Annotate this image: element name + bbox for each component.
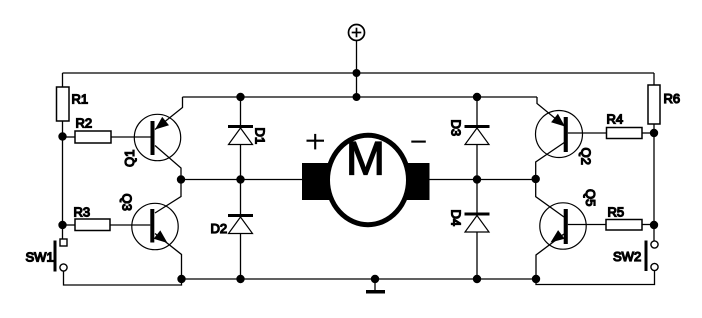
wire left vertical top — [62, 73, 64, 87]
wire R4 right lead — [642, 132, 654, 134]
transistor Q2 — [536, 97, 583, 179]
motor + polarity label — [307, 134, 325, 150]
node R4/R6 junction — [650, 129, 658, 137]
svg-text:R6: R6 — [664, 91, 681, 106]
wire top rail — [63, 72, 655, 74]
node bottom right junction — [532, 275, 540, 283]
wire motor right rail — [430, 179, 536, 181]
wire bottom rail — [182, 278, 537, 280]
wire right vertical middle — [653, 133, 655, 241]
svg-text:D3: D3 — [449, 120, 464, 137]
wire R6 bottom lead — [653, 124, 655, 133]
wire inner top rail — [183, 96, 538, 98]
svg-text:R4: R4 — [607, 112, 624, 127]
resistor R1 — [57, 87, 70, 121]
node D1 top — [236, 93, 244, 101]
resistor R3 — [75, 219, 110, 231]
switch SW2 — [645, 241, 659, 272]
node inner rail / supply — [353, 93, 361, 101]
motor - polarity label — [411, 141, 426, 143]
diode D3 — [465, 97, 490, 180]
diode D4 — [465, 180, 490, 280]
wire Q2 base to R4 — [568, 132, 607, 134]
svg-text:M: M — [346, 132, 385, 185]
svg-text:Q2: Q2 — [579, 148, 594, 165]
resistor R2 — [75, 131, 111, 143]
wire right vertical top — [653, 73, 655, 85]
svg-text:R2: R2 — [76, 116, 93, 131]
node top rail / supply — [353, 69, 361, 77]
diode D1 — [228, 97, 253, 180]
svg-text:Q3: Q3 — [120, 194, 135, 211]
wire left vertical middle — [62, 121, 64, 239]
wire R5 right lead — [642, 224, 654, 226]
node right motor junction — [532, 175, 540, 183]
motor M — [302, 135, 430, 224]
svg-text:SW2: SW2 — [613, 249, 641, 264]
node R3 junction — [58, 221, 66, 229]
transistor Q1 — [134, 97, 182, 180]
node R1/R2 junction — [58, 132, 66, 140]
svg-text:D4: D4 — [449, 210, 464, 227]
wire R3 to Q3 base — [110, 224, 150, 226]
wire R3 left lead — [63, 224, 76, 226]
svg-text:D1: D1 — [253, 128, 268, 145]
transistor Q3 — [132, 180, 182, 280]
wire SW1 to bottom rail — [64, 271, 182, 285]
resistor R4 — [607, 128, 643, 139]
node D2 bottom — [236, 275, 244, 283]
wire Q5 base to R5 — [568, 224, 606, 226]
node D3/D4 junction — [473, 175, 481, 183]
resistor R6 — [648, 85, 660, 124]
node D4 bottom — [473, 275, 481, 283]
svg-text:D2: D2 — [211, 221, 228, 236]
node R5/SW2 junction — [650, 221, 658, 229]
node D1/D2 junction — [236, 175, 244, 183]
transistor Q5 — [536, 179, 587, 279]
svg-text:Q5: Q5 — [583, 189, 598, 206]
diode D2 — [228, 180, 253, 280]
svg-text:R5: R5 — [608, 205, 625, 220]
wire from + terminal down to rails — [356, 41, 358, 98]
svg-text:SW1: SW1 — [26, 250, 54, 265]
power terminal + — [349, 25, 365, 41]
switch SW1 — [54, 239, 68, 272]
svg-text:R1: R1 — [72, 92, 89, 107]
wire R2 to Q1 base — [111, 136, 151, 138]
wire R2 left lead — [63, 136, 76, 138]
wire SW2 to bottom rail — [536, 271, 655, 285]
node bottom left junction — [177, 275, 185, 283]
ground — [366, 279, 385, 294]
svg-text:Q1: Q1 — [122, 150, 137, 167]
svg-text:R3: R3 — [74, 205, 91, 220]
resistor R5 — [606, 220, 642, 231]
node left motor junction — [177, 175, 185, 183]
node D3 top — [473, 93, 481, 101]
wire motor left rail — [181, 179, 302, 181]
ground node — [371, 275, 379, 283]
